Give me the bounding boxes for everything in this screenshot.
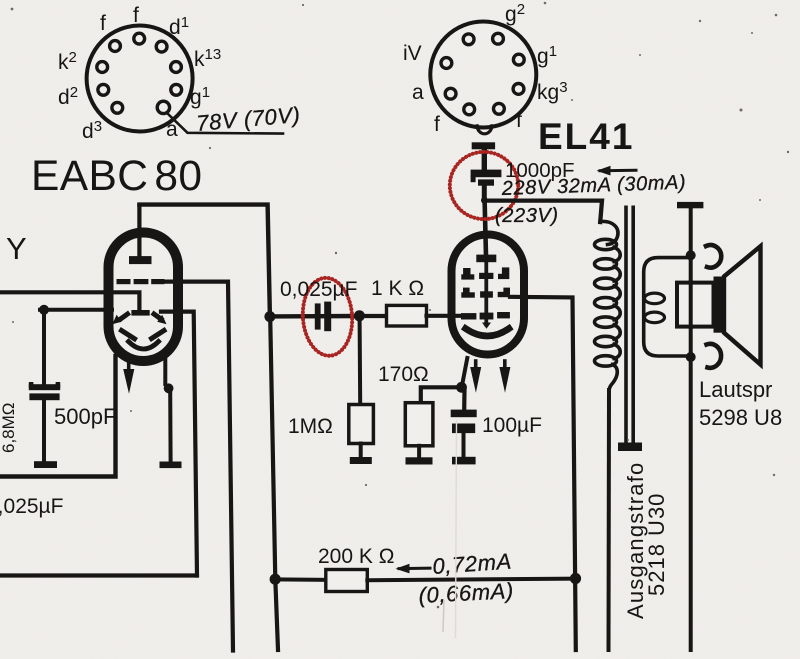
magnet hook upper [706,245,721,268]
socket S2 pin (top-left) [463,34,474,45]
R2 bottom lead [359,444,363,457]
socket S2 pin g1 (right-upper) [513,54,524,65]
T1 core lines [624,207,628,442]
wire to resistor R4 200K [275,577,326,581]
socket S1 pin f (top) [134,33,145,44]
terminal bar under C1 [34,461,57,468]
resistor R2 1M (box) [349,405,374,444]
socket S1 pin a (bottom-right) [157,101,169,113]
junction dot at 500pF tap [39,305,49,315]
V1 right lead to terminal [168,392,172,461]
V1 diode plate bar [131,310,149,316]
pentode tube V2 EL41 envelope [452,235,525,355]
junction dot output node [570,573,581,584]
svg-text:100µF: 100µF [482,414,542,437]
capacitor C3 1000pF plates [471,170,502,186]
wire junction to R3 [421,387,456,404]
magnet hook lower [707,344,722,368]
wire down from right junction to R2 1M [358,321,363,405]
socket S1 pin k13 (right) [171,62,182,73]
wire R1 to V2 grid [427,314,463,318]
svg-text:(223V): (223V) [495,205,559,227]
red inspection circle around C3 [450,152,518,219]
speaker top terminal bar [677,202,703,208]
wire Y input to V1 (left, enters tube, down to diode plate) [0,292,139,311]
svg-text:EABC80: EABC80 [31,153,202,200]
red inspection circle around C2 [300,276,355,357]
socket S2 pin iV (left-upper) [441,58,452,69]
wire R4 to output node [367,579,575,581]
transformer T1 primary winding [595,221,621,392]
wire junction down to C4 [462,390,466,410]
V2 grid row g2 (hooks + dash) [461,288,510,298]
socket S1 pin d1 (upper-right) [156,41,167,52]
svg-text:f: f [434,113,440,136]
svg-text:f: f [516,109,522,132]
arrow (current direction) near 1000pF [600,169,636,172]
terminal bar under R3 [406,457,433,464]
tube socket S1 (EABC80 base view) [87,26,193,132]
svg-text:5218 U30: 5218 U30 [644,493,669,596]
faint scan scratch [456,420,457,638]
svg-text:f: f [100,12,106,35]
resistor R1 1K (box) [365,314,387,318]
V2 anode plate bar [476,255,496,263]
svg-text:170Ω: 170Ω [378,363,429,386]
socket S1 pin g1 (lower-right) [171,84,182,95]
svg-text:EL41: EL41 [538,116,634,157]
junction dot speaker bottom [686,352,696,362]
socket S1 pin d3 (bottom-left) [112,102,123,113]
junction dot speaker top [686,250,696,260]
svg-text:f: f [133,4,139,27]
wire V1 grid to right, down long vertical [160,282,233,651]
V2 grid row g3 (hooks + dash) [461,267,509,279]
svg-text:iV: iV [403,42,422,65]
wire tap to V1 left diode [40,308,112,312]
speaker center stem [689,208,693,650]
junction blob at V2 anode node [481,197,488,204]
terminal bar under V1 [160,462,182,469]
arrow (current direction) near 200K [399,567,430,570]
capacitor C1 500pF plates [29,382,60,400]
speaker cone outline [724,246,761,364]
wire ground bus at 575 to left edge [0,573,197,577]
socket S1 pin f (upper-left) [110,41,121,52]
C4 bottom lead [462,433,466,457]
capacitor C4 100uF plates [451,410,477,434]
svg-text:6,8MΩ: 6,8MΩ [0,402,18,453]
V1 diode anode arrow (left) [121,314,128,319]
wire down from left junction to 200K node [270,317,278,650]
socket S2 pin kg3 (right-lower) [513,84,524,95]
V1 anode plate bar [130,257,152,264]
svg-text:500pF: 500pF [54,404,116,429]
wire coupling line [270,314,360,319]
svg-text:1 K Ω: 1 K Ω [371,277,424,300]
resistor R3 170 ohm (box) [405,403,433,446]
wire anode node to transformer primary [484,201,602,222]
socket S2 pin a (left-lower) [445,88,456,99]
junction dot right of coupling cap [354,310,365,321]
svg-text:0,025µF: 0,025µF [280,278,357,301]
R3 bottom lead [417,446,421,457]
socket S2 pin f (bottom-left) [464,104,475,115]
svg-text:a: a [166,118,178,141]
socket S2 keying nub [477,126,492,134]
capacitor C1 500pF lead [42,310,46,384]
V1 diode anode arrow (right) [154,314,161,319]
socket S2 pin g2 (top-right) [493,33,504,44]
socket S1 pin d2 (lower-left) [98,84,109,95]
speaker stem through box [689,282,693,327]
terminal bar under R2 [350,457,372,464]
V2 center support stem [484,262,488,325]
V1 right lead below envelope [163,359,167,384]
V2 filament arrow (left) [474,361,478,369]
svg-text:1MΩ: 1MΩ [288,415,333,438]
speaker cone neck bar [714,277,725,333]
leader line from pin a to 78V note [167,113,284,134]
V2 anode lead from cap node [485,200,486,256]
svg-text:Y: Y [6,231,27,266]
junction dot left of coupling cap [264,311,275,322]
V1 anode lead (top) [137,206,141,257]
V2 control grid g1 dashes [461,312,510,320]
tube socket S2 (EL41 base view) [430,22,536,128]
V1 cathode arc [129,342,159,350]
junction dot V2 cathode [456,382,467,393]
capacitor C2 0,025uF plates [315,302,331,332]
V1 lower diode slash (right) [152,331,165,339]
V2 cathode arc [466,329,510,337]
V2 cathode lead to junction [463,358,468,383]
junction dot on V1 right lead [164,383,174,393]
V1 heater-side wire down-left to edge [0,356,116,477]
wire V2 screen to right, down to output node [510,297,576,650]
svg-text:a: a [412,81,424,104]
svg-text:Lautspr: Lautspr [699,377,772,402]
socket S1 pin k2 (left) [97,62,108,73]
resistor R4 200K (box) [326,570,368,592]
voice-coil loops [645,293,665,304]
T1 primary bottom lead [607,390,612,650]
V1 cathode arrow below envelope [127,362,131,371]
terminal bar under C4 [452,457,476,465]
terminal bar under T1 core [618,443,642,452]
socket S2 pin f (bottom-right) [494,103,505,114]
C3 bottom lead to anode node [482,186,487,200]
svg-text:0,025µF: 0,025µF [0,495,63,518]
C1 bottom lead [42,400,46,461]
triode/diodes tube V1 EABC80 envelope [109,233,179,362]
wire V1 right diode plate to right, long vertical down [161,312,197,576]
speaker voice-coil outline [644,258,691,356]
junction dot at 200K left [270,574,281,585]
svg-text:5298 U8: 5298 U8 [699,405,782,430]
speaker driver box [677,283,714,327]
C3 top lead [482,149,487,170]
V1 grid dashes [117,279,165,284]
V1 lower diode slash (left) [122,331,135,339]
V2 filament arrow (right) [503,361,507,369]
wire anode V1 up and over to coupling node [139,205,270,317]
svg-text:200 K Ω: 200 K Ω [318,545,394,568]
top terminal bar above C3 [472,142,495,149]
svg-text:(0,66mA): (0,66mA) [418,578,514,608]
